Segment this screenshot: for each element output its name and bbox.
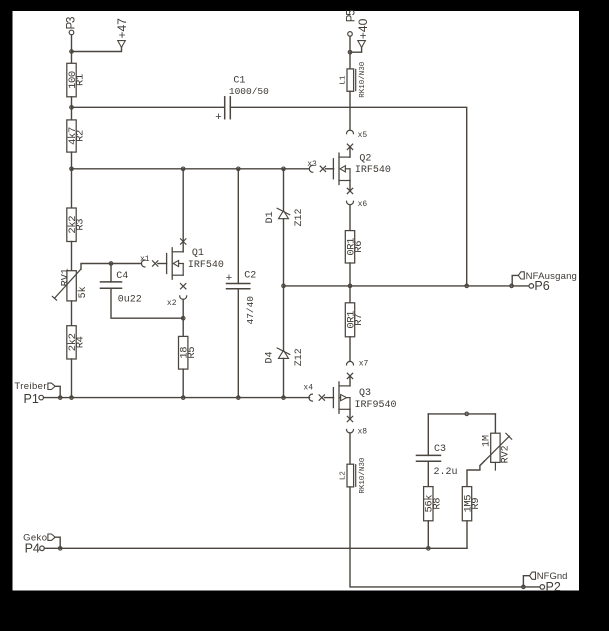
wire D column top <box>283 169 285 211</box>
svg-text:47/40: 47/40 <box>245 296 256 325</box>
svg-text:RV2: RV2 <box>501 445 512 463</box>
wire Q2 drain stub <box>349 147 351 157</box>
connector x4 <box>303 383 324 401</box>
svg-text:L1: L1 <box>340 75 348 85</box>
node P6 terminal <box>529 279 550 293</box>
wire D4 to bottom rail <box>283 358 285 397</box>
node P1 terminal <box>24 392 44 406</box>
svg-text:Z12: Z12 <box>294 208 305 226</box>
svg-text:P2: P2 <box>546 580 561 594</box>
wire L1 to x5 <box>349 91 351 130</box>
wire C4 top <box>110 264 112 282</box>
wire C1 right to right rail <box>230 107 466 286</box>
wire R6 to output rail <box>349 263 351 286</box>
pin cross Q3 drain <box>347 373 352 378</box>
svg-text:Z12: Z12 <box>294 348 305 366</box>
node P5 terminal <box>345 10 357 36</box>
junction NFGnd tap <box>522 585 526 589</box>
node Geko flag <box>23 532 60 548</box>
wire x8 to L2 <box>349 433 351 464</box>
junction NFAusgang tap <box>510 284 513 288</box>
svg-text:Q2: Q2 <box>359 154 371 165</box>
junction C2 bottom tap <box>237 396 241 400</box>
svg-text:RV1: RV1 <box>60 268 71 286</box>
wire D1 to D4 <box>283 219 285 351</box>
svg-text:RK10/N30: RK10/N30 <box>359 457 367 494</box>
wire R8 to Geko rail <box>427 521 429 549</box>
potentiometer RV1 <box>52 268 88 301</box>
junction right rail output tap <box>465 284 469 288</box>
wire Q3 drain stub <box>349 376 351 386</box>
junction Geko flag tap <box>58 547 62 551</box>
connector x1 <box>140 255 158 267</box>
resistor R8 <box>424 487 444 521</box>
svg-text:R6: R6 <box>353 241 365 253</box>
wire P3 to R1 <box>71 35 73 64</box>
wire C3 to R8 <box>427 461 429 486</box>
svg-text:0u22: 0u22 <box>118 295 142 306</box>
connector x6 <box>347 200 368 209</box>
svg-text:R8: R8 <box>431 498 443 510</box>
svg-text:x2: x2 <box>167 299 177 308</box>
power +47 <box>115 18 129 48</box>
wire Geko rail <box>44 547 467 549</box>
connector x5 <box>347 130 368 140</box>
svg-text:P1: P1 <box>24 392 39 406</box>
resistor R7 <box>345 303 365 337</box>
junction D middle tap <box>282 284 286 288</box>
node P3 terminal <box>65 17 77 35</box>
svg-text:2.2u: 2.2u <box>434 467 458 478</box>
svg-text:Q3: Q3 <box>359 388 371 399</box>
pin cross Q2 drain <box>347 144 352 149</box>
transistor Q1 IRF540 <box>167 248 224 279</box>
svg-text:RK10/N30: RK10/N30 <box>359 61 367 98</box>
junction C2 top tap <box>237 167 241 171</box>
svg-text:IRF540: IRF540 <box>188 260 224 271</box>
junction C3 RV2 tap <box>465 412 469 416</box>
junction R5 bottom tap <box>181 396 185 400</box>
capacitor C3 <box>417 444 458 478</box>
svg-text:L2: L2 <box>340 471 348 480</box>
wire C3 RV2 top <box>428 414 495 456</box>
zener diode D4 Z12 <box>265 348 305 366</box>
wire C2 top <box>237 169 239 284</box>
resistor R9 <box>462 487 482 521</box>
wire to +40 symbol <box>350 47 362 52</box>
junction R6 R7 tap <box>348 284 352 288</box>
wire x3 to Q2 gate <box>326 168 334 170</box>
transistor Q3 IRF9540 <box>333 382 396 413</box>
wire to +47 symbol <box>72 47 122 51</box>
junction C1 tap <box>70 106 74 110</box>
svg-text:x5: x5 <box>358 131 368 140</box>
connector x7 <box>347 360 369 369</box>
svg-text:+: + <box>226 272 232 284</box>
svg-text:R7: R7 <box>353 314 365 326</box>
wire lower gate rail <box>44 397 310 399</box>
svg-text:1M: 1M <box>482 435 493 447</box>
wire x6 to R6 <box>349 205 351 231</box>
junction C4 bottom tap <box>181 316 185 320</box>
svg-text:IRF540: IRF540 <box>355 165 391 176</box>
svg-text:R5: R5 <box>186 347 198 359</box>
junction Q1 drain tap <box>181 167 185 171</box>
inductor L2 RK10/N30 <box>340 457 368 494</box>
svg-text:IRF9540: IRF9540 <box>355 400 397 411</box>
pin cross Q1 drain <box>181 239 186 244</box>
wire R5 to bottom rail <box>182 369 184 398</box>
svg-text:R1: R1 <box>75 74 87 86</box>
wire RV1 wiper <box>81 264 141 270</box>
wire L2 to NFGnd rail <box>350 487 540 587</box>
svg-text:1000/50: 1000/50 <box>229 86 269 97</box>
svg-text:R3: R3 <box>75 219 87 231</box>
wire output rail <box>284 285 530 287</box>
wire gate rail to R3 <box>71 169 73 208</box>
svg-text:+40: +40 <box>356 18 370 39</box>
wire R4 to bottom rail <box>71 359 73 398</box>
connector x8 <box>347 428 368 437</box>
inductor L1 RK10/N30 <box>340 61 368 98</box>
svg-text:NFAusgang: NFAusgang <box>526 271 577 282</box>
resistor R2 <box>67 120 87 152</box>
resistor R1 <box>67 63 87 97</box>
wire x2 down to R5 <box>182 299 184 336</box>
svg-text:D1: D1 <box>265 211 276 223</box>
svg-text:C2: C2 <box>244 270 256 281</box>
junction left bottom tap <box>70 396 74 400</box>
junction Treiber flag tap <box>58 396 62 400</box>
wire R2 to gate rail <box>71 152 73 169</box>
zener diode D1 Z12 <box>265 208 305 226</box>
capacitor C2 <box>226 270 256 324</box>
node P2 terminal <box>540 580 561 594</box>
wire R9 to Geko rail <box>466 521 468 549</box>
wire P5 to L1 <box>349 36 351 69</box>
wire R7 top <box>349 286 351 303</box>
transistor Q2 IRF540 <box>333 153 391 184</box>
svg-text:C3: C3 <box>434 444 446 455</box>
svg-text:x7: x7 <box>359 360 369 369</box>
svg-text:R2: R2 <box>75 130 87 142</box>
svg-text:R4: R4 <box>75 336 87 348</box>
power +40 <box>356 18 370 47</box>
wire C2 bottom <box>237 289 239 398</box>
svg-text:C4: C4 <box>116 271 128 282</box>
wire upper gate rail <box>72 168 310 170</box>
wire C1 left <box>72 106 225 108</box>
svg-text:5k: 5k <box>77 286 89 298</box>
pin cross Q3 source <box>347 416 352 421</box>
svg-text:+47: +47 <box>115 18 129 39</box>
capacitor C1 <box>215 76 269 123</box>
junction C4 top tap <box>109 262 113 266</box>
node NFGnd flag <box>523 571 567 587</box>
connector x3 <box>307 160 325 172</box>
wire x4 to Q3 gate <box>325 397 334 399</box>
wire Q3 source stub <box>349 409 351 419</box>
junction R8 Geko tap <box>427 547 431 551</box>
potentiometer RV2 <box>482 433 512 470</box>
capacitor C4 <box>101 271 142 306</box>
resistor R6 <box>345 231 365 263</box>
pin cross Q2 source <box>347 188 352 193</box>
resistor R5 <box>179 336 199 369</box>
junction +47 tap <box>70 50 74 54</box>
svg-text:x8: x8 <box>358 428 368 437</box>
junction left gate rail <box>70 167 74 171</box>
node NFAusgang flag <box>512 271 577 286</box>
wire RV2 wiper to R9 <box>467 461 484 487</box>
wire C4 bottom to x2 node <box>111 288 183 318</box>
svg-text:x4: x4 <box>303 383 313 392</box>
wire R3 to RV1 <box>71 242 73 271</box>
svg-text:P4: P4 <box>25 542 40 556</box>
svg-text:x6: x6 <box>358 200 368 209</box>
node Treiber flag <box>14 381 60 398</box>
svg-text:+: + <box>215 111 221 123</box>
wire RV1 to R4 <box>71 301 73 326</box>
junction D4 bottom tap <box>282 396 286 400</box>
wire Q2 source stub <box>349 181 351 191</box>
junction D1 top tap <box>282 167 286 171</box>
svg-text:P3: P3 <box>65 17 77 29</box>
svg-text:R9: R9 <box>470 498 482 510</box>
svg-text:D4: D4 <box>265 351 276 363</box>
node P4 terminal <box>25 542 45 556</box>
wire Q1 drain up <box>182 169 184 252</box>
wire R1 to R2 <box>71 97 73 120</box>
wire R7 to x7 <box>349 337 351 362</box>
resistor R3 <box>67 208 87 242</box>
wire x1 to Q1 gate <box>158 263 167 265</box>
connector x2 <box>167 296 187 308</box>
pin cross Q1 source <box>181 284 186 289</box>
resistor R4 <box>67 326 87 359</box>
svg-text:x1: x1 <box>140 255 150 264</box>
svg-text:Q1: Q1 <box>192 248 204 259</box>
svg-text:x3: x3 <box>307 160 317 169</box>
junction +40 tap <box>348 50 352 54</box>
svg-text:P6: P6 <box>534 279 549 293</box>
svg-text:Treiber: Treiber <box>14 381 47 392</box>
